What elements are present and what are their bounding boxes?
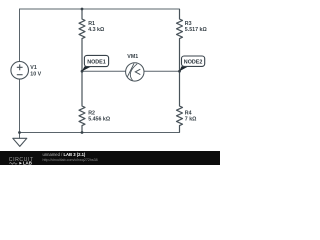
svg-text:4.3 kΩ: 4.3 kΩ xyxy=(88,27,105,33)
resistor R4 xyxy=(177,71,183,132)
svg-text:R2: R2 xyxy=(88,110,95,116)
wire left column upper (V1 top to rail) xyxy=(19,9,21,62)
junction node A (NODE1) xyxy=(81,70,84,73)
node NODE2 label box xyxy=(182,56,205,66)
voltmeter VM1 xyxy=(126,63,144,81)
svg-text:NODE1: NODE1 xyxy=(87,59,106,65)
svg-text:NODE2: NODE2 xyxy=(184,60,203,66)
resistor R3 xyxy=(177,9,183,71)
svg-text:VM1: VM1 xyxy=(127,54,138,60)
svg-text:R4: R4 xyxy=(185,110,192,116)
junction top of R1 xyxy=(81,8,84,11)
node NODE1 label box xyxy=(84,55,108,66)
wire bottom rail xyxy=(20,132,180,134)
wire left column lower (V1 bottom to bottom rail) xyxy=(19,79,21,132)
svg-text:V1: V1 xyxy=(30,65,37,71)
svg-text:10 V: 10 V xyxy=(30,72,41,78)
ground xyxy=(13,138,27,146)
footer bar xyxy=(0,151,220,165)
junction ground xyxy=(18,131,21,134)
svg-text:5.517 kΩ: 5.517 kΩ xyxy=(185,27,208,33)
junction bottom of R2 xyxy=(81,131,84,134)
wire top rail xyxy=(20,8,180,10)
resistor R1 xyxy=(79,9,85,71)
svg-text:R1: R1 xyxy=(88,21,95,27)
svg-text:7 kΩ: 7 kΩ xyxy=(185,117,197,123)
svg-text:5.456 kΩ: 5.456 kΩ xyxy=(88,117,111,123)
svg-text:►LAB: ►LAB xyxy=(19,161,32,165)
voltage source V1 xyxy=(11,62,29,80)
junction node B (NODE2) xyxy=(178,70,181,73)
svg-text:R3: R3 xyxy=(185,21,192,27)
wire voltmeter right to node2 xyxy=(144,70,180,72)
node NODE2 flag pointer xyxy=(179,66,188,71)
wire ground stub xyxy=(19,133,21,139)
resistor R2 xyxy=(79,71,85,132)
footer logo zigzag xyxy=(9,163,17,165)
svg-text:http://circuitlab.com/c/hwq272: http://circuitlab.com/c/hwq272hs38 xyxy=(43,158,98,162)
node NODE1 flag pointer xyxy=(82,66,92,71)
wire node1 to voltmeter left xyxy=(82,70,126,72)
svg-text:unnamed / LAB 3 (2.1): unnamed / LAB 3 (2.1) xyxy=(43,152,86,157)
